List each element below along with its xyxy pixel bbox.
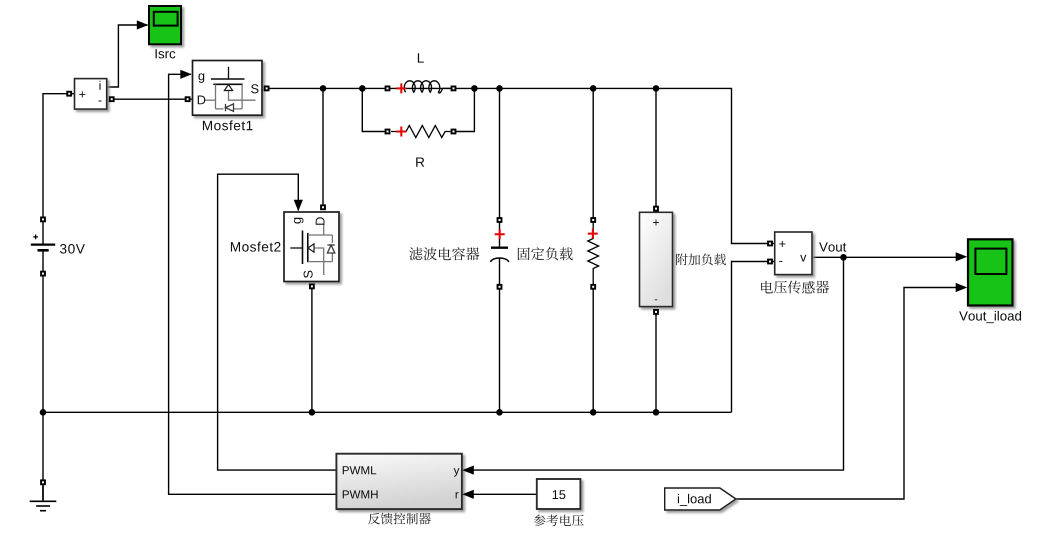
wire: R resistor output up to merge node [454, 88, 475, 131]
current sensor - label [98, 99, 101, 102]
port: additional load top [653, 206, 659, 212]
scope block Vout_iload [968, 239, 1013, 305]
wire: fixed load down to ground bus [592, 287, 594, 412]
wire: PWMH output to Mosfet1 gate [169, 74, 337, 494]
additional load block [640, 212, 673, 306]
controller pin PWML [343, 466, 376, 474]
Mosfet2 internal mosfet icon (rotated) [290, 225, 335, 276]
tag text i_load [678, 494, 711, 506]
port: L right [451, 86, 457, 92]
wire: filter capacitor branch from top bus [499, 88, 501, 221]
wire: current sensor - output to Mosfet1 D [112, 98, 193, 100]
wire: voltage sensor - input riser from ground bus [732, 262, 775, 413]
feedback controller block [336, 454, 462, 509]
wire: PWML output to Mosfet2 gate [218, 174, 337, 470]
label Isrc [156, 49, 176, 58]
label Mosfet1 [203, 120, 253, 130]
port: Mosfet1 S [264, 86, 270, 92]
label feedback controller [368, 513, 431, 525]
junction: additional load on ground bus [653, 409, 660, 416]
capacitor + polarity [495, 229, 505, 239]
additional load - label [655, 298, 657, 301]
wire: bottom ground bus [43, 411, 732, 413]
label additional load [676, 253, 726, 265]
DC voltage source 30V [31, 235, 55, 251]
transistor Mosfet2 block [284, 212, 339, 282]
label R [416, 157, 424, 166]
label reference voltage [534, 514, 584, 526]
fixed load + polarity [588, 229, 598, 239]
label filter capacitor [409, 247, 479, 260]
junction: fixed load on top bus [590, 85, 597, 92]
junction: battery on ground bus [40, 409, 47, 416]
wire: additional load down to ground bus [655, 312, 657, 413]
wire: filter capacitor down to ground bus [499, 287, 501, 412]
from tag i_load [665, 488, 736, 510]
port: additional load bottom [653, 309, 659, 315]
label voltage sensor [761, 281, 829, 294]
junction: Mosfet2 D on top bus [320, 85, 327, 92]
port: R left [385, 129, 391, 135]
voltage sensor + label [779, 241, 785, 247]
port: Mosfet2 D [320, 204, 326, 210]
arrowhead into Isrc scope [137, 20, 149, 29]
port: voltage sensor - [767, 259, 773, 265]
wire: Mosfet2 D branch from top bus [322, 88, 324, 207]
label fixed load [518, 247, 573, 260]
junction: Vout node [840, 254, 847, 261]
wire: reference 15 to controller r input [473, 493, 537, 495]
Mosfet2 pin label S [304, 271, 313, 278]
port: battery - [40, 271, 46, 277]
wire: battery - terminal down to ground node [42, 252, 44, 413]
port: L left [385, 86, 391, 92]
Mosfet1 pin label D [198, 95, 206, 104]
current sensor i label [99, 81, 100, 90]
junction: fixed load on ground bus [590, 409, 597, 416]
wire: additional load branch from top bus [655, 88, 657, 206]
label Mosfet2 [231, 242, 281, 252]
junction: L/R split on top bus [359, 85, 366, 92]
transistor Mosfet1 block [193, 61, 263, 116]
net label Vout [819, 242, 846, 251]
Mosfet2 pin label g [294, 218, 304, 224]
wire: current sensor i output to Isrc scope [107, 25, 148, 87]
arrowhead into Mosfet2 g [294, 200, 303, 212]
Mosfet1 pin label S [251, 84, 258, 93]
port: capacitor top [497, 217, 503, 223]
wire: Vout node feedback down to controller y input [473, 257, 844, 470]
resistor fixed load [588, 222, 599, 284]
wire: voltage sensor v output to Vout node and scope [812, 256, 957, 258]
port: battery + [40, 217, 46, 223]
port: current sensor input [66, 91, 72, 97]
junction: Mosfet2 S on ground bus [309, 409, 316, 416]
port: capacitor bottom [497, 284, 503, 290]
inductor L + polarity [396, 83, 406, 93]
port: fixed load bottom [590, 284, 596, 290]
controller pin y [454, 468, 460, 477]
constant block 15 [537, 479, 581, 509]
wire: battery + terminal up to current sensor input [43, 94, 75, 245]
voltage sensor v label [800, 255, 806, 262]
arrowhead into scope input 1 [956, 252, 968, 261]
Mosfet1 internal mosfet icon [205, 67, 256, 112]
label Vout_iload [959, 311, 1021, 323]
wire: ground node to ground symbol [42, 412, 44, 499]
ground [30, 486, 57, 511]
port: fixed load top [590, 217, 596, 223]
wire: top bus from Mosfet1 S to voltage sensor + [267, 88, 775, 243]
arrowhead into controller y [462, 466, 474, 475]
current sensor + label [79, 91, 85, 97]
port: current sensor - output [109, 96, 115, 102]
arrowhead into controller r [462, 490, 474, 499]
arrowhead into scope input 2 [956, 283, 968, 292]
port: ground [40, 479, 46, 485]
arrowhead into Mosfet1 g [180, 70, 192, 79]
Mosfet1 pin label g [198, 73, 204, 83]
resistor R + polarity [396, 127, 406, 137]
voltage sensor - label [779, 260, 782, 263]
wire: i_load tag to scope second input [736, 288, 957, 500]
junction: capacitor on ground bus [496, 409, 503, 416]
label L [418, 53, 424, 62]
junction: capacitor on top bus [496, 85, 503, 92]
additional load + label [653, 220, 659, 226]
port: Mosfet2 S [309, 284, 315, 290]
junction: additional load on top bus [653, 85, 660, 92]
controller pin PWMH [343, 490, 378, 498]
port: R right [451, 129, 457, 135]
junction: L/R merge on top bus [471, 85, 478, 92]
inductor L [404, 81, 442, 93]
wire: Mosfet2 S down to ground bus [311, 286, 313, 412]
current sensor block [75, 79, 107, 110]
capacitor (filter) [490, 222, 509, 287]
resistor R [391, 126, 451, 138]
port: voltage sensor + [767, 241, 773, 247]
label 30V [60, 244, 85, 254]
port: Mosfet1 D [185, 96, 191, 102]
Mosfet2 pin label D [316, 217, 325, 225]
wire: branch down to R resistor [362, 88, 387, 131]
controller pin r [456, 492, 459, 498]
value label 15 [553, 490, 566, 499]
scope block Isrc [149, 6, 181, 44]
voltage sensor block [775, 232, 812, 275]
wire: fixed load branch from top bus [592, 88, 594, 221]
